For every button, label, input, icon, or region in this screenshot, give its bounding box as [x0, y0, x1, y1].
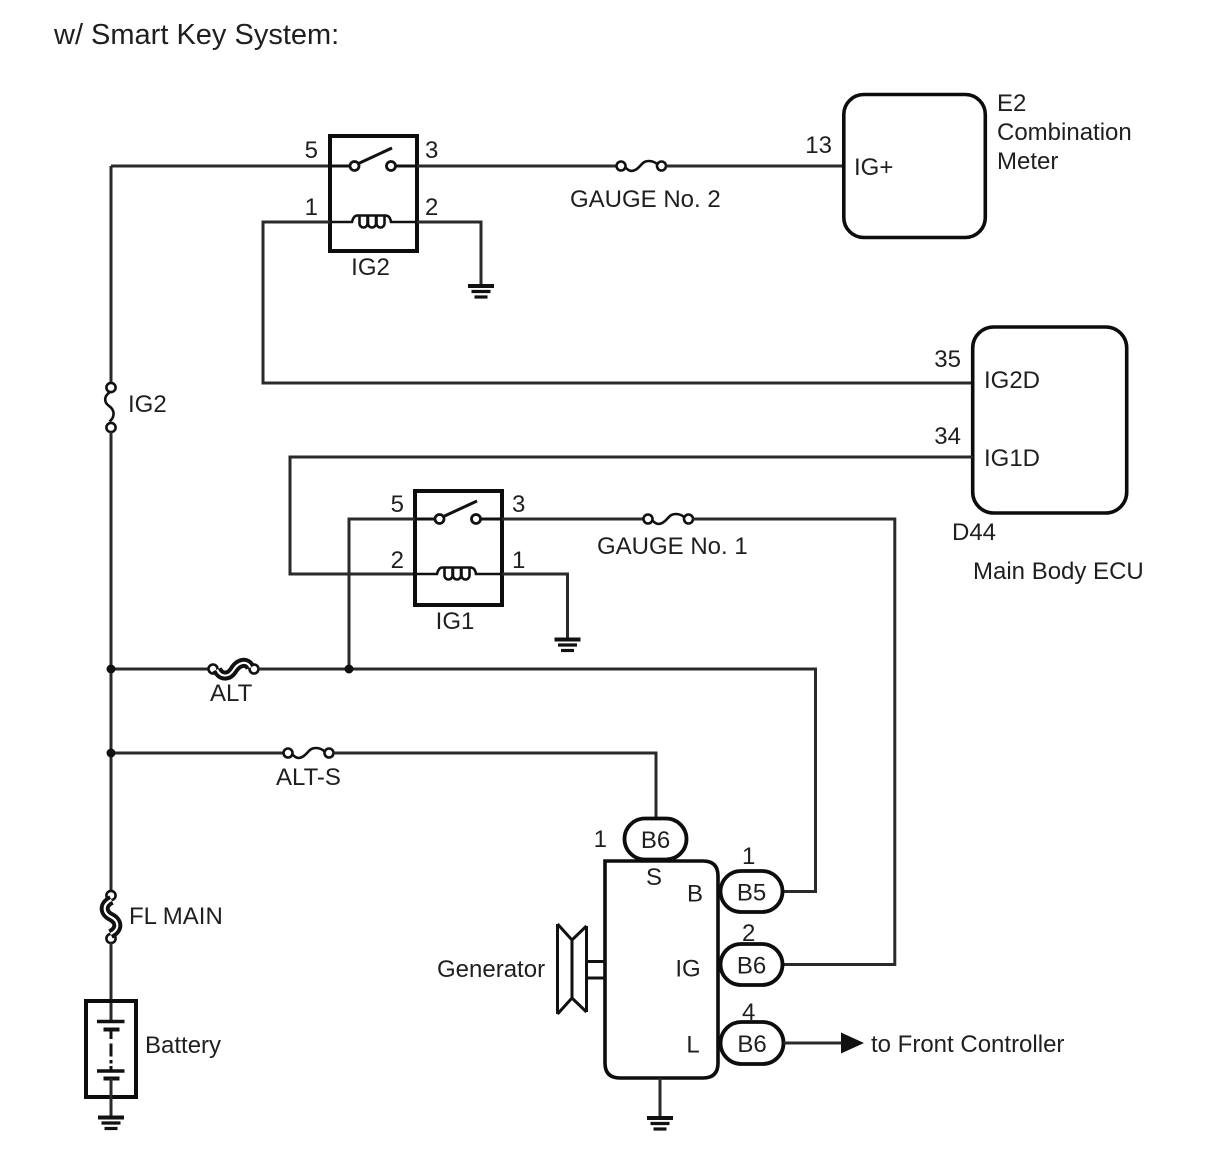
- wire ECU IG1D to relay IG1 pin2: [290, 457, 973, 574]
- svg-text:4: 4: [742, 999, 755, 1026]
- wire left vertical bus middle segment: [110, 432, 113, 891]
- svg-text:B6: B6: [737, 1031, 766, 1058]
- relay IG1 pin labels: [391, 491, 526, 574]
- svg-text:35: 35: [934, 346, 961, 373]
- svg-text:FL MAIN: FL MAIN: [129, 903, 223, 930]
- relay IG2 box: [330, 136, 417, 251]
- connector IG+ combination meter box: [844, 95, 986, 238]
- svg-text:IG+: IG+: [854, 154, 893, 181]
- svg-text:5: 5: [391, 491, 404, 518]
- wire relay IG1 pin5 down to ALT node: [349, 519, 415, 669]
- svg-text:B: B: [687, 881, 703, 908]
- relay IG1 box: [415, 491, 502, 605]
- connector B6 terminal S: [625, 819, 687, 860]
- svg-text:2: 2: [425, 194, 438, 221]
- svg-text:B6: B6: [737, 953, 766, 980]
- svg-text:5: 5: [305, 137, 318, 164]
- wire relay IG2 pin2 to ground: [417, 222, 481, 284]
- relay IG1 switch: [415, 501, 502, 524]
- junction node ALT left: [107, 665, 116, 674]
- relay IG2 switch: [330, 148, 417, 171]
- connector B6 terminal L: [721, 1022, 784, 1064]
- svg-text:GAUGE No. 1: GAUGE No. 1: [597, 533, 748, 560]
- arrowhead to Front Controller: [841, 1033, 864, 1054]
- wire relay IG1 pin1 to ground: [502, 574, 568, 638]
- fusible link FL MAIN: [105, 891, 118, 943]
- svg-text:E2: E2: [997, 90, 1026, 117]
- svg-text:L: L: [686, 1032, 699, 1059]
- svg-text:13: 13: [805, 132, 832, 159]
- connector B6 terminal IG: [721, 944, 783, 985]
- junction node ALT-S left: [107, 749, 116, 758]
- junction node ALT / IG1 pin5: [345, 665, 354, 674]
- battery box: [86, 1001, 136, 1097]
- svg-text:Generator: Generator: [437, 956, 545, 983]
- svg-text:B5: B5: [737, 880, 766, 907]
- wire ALT to generator B5: [259, 669, 816, 892]
- fuse IG2 (left bus): [105, 383, 115, 432]
- fuse GAUGE No. 2: [617, 161, 667, 171]
- wire into battery: [110, 943, 113, 1022]
- svg-text:w/ Smart Key System:: w/ Smart Key System:: [53, 19, 339, 51]
- wire relay IG1 pin3 to fuse GAUGE No.1: [502, 518, 644, 521]
- fusible link ALT: [209, 663, 259, 676]
- svg-text:IG: IG: [675, 956, 700, 983]
- svg-text:Battery: Battery: [145, 1032, 221, 1059]
- relay IG2 pin labels: [305, 137, 439, 221]
- wire fuse GAUGE No.1 to generator IG: [693, 519, 895, 965]
- connector B5 terminal B: [721, 871, 783, 912]
- ECU box D44: [973, 327, 1127, 513]
- svg-text:IG1D: IG1D: [984, 445, 1040, 472]
- wire relay IG2 pin1 to ECU IG2D: [263, 222, 973, 383]
- svg-text:ALT-S: ALT-S: [276, 764, 341, 791]
- ground (IG2 relay coil): [468, 286, 494, 297]
- generator pulley: [558, 924, 607, 1014]
- ground (IG1 relay coil): [555, 640, 581, 651]
- wire ALT row: [111, 668, 209, 671]
- wire top-left horizontal to relay IG2 pin 5: [111, 165, 330, 168]
- svg-text:IG2: IG2: [128, 391, 167, 418]
- svg-text:1: 1: [742, 843, 755, 870]
- battery plates: [97, 1022, 125, 1079]
- wire ALT-S to generator S: [334, 753, 657, 818]
- battery ground stub: [110, 1079, 113, 1116]
- ground (generator): [647, 1118, 673, 1129]
- wire fuse to combination meter: [666, 165, 844, 168]
- svg-text:1: 1: [594, 826, 607, 853]
- svg-text:34: 34: [934, 423, 961, 450]
- svg-text:to Front Controller: to Front Controller: [871, 1031, 1064, 1058]
- fuse GAUGE No. 1: [644, 514, 694, 524]
- svg-text:GAUGE No. 2: GAUGE No. 2: [570, 186, 721, 213]
- svg-text:B6: B6: [641, 827, 670, 854]
- relay IG2 coil: [330, 216, 417, 228]
- svg-text:IG2: IG2: [351, 254, 390, 281]
- relay IG1 coil: [415, 568, 502, 580]
- svg-text:ALT: ALT: [210, 680, 253, 707]
- svg-text:Meter: Meter: [997, 148, 1058, 175]
- svg-text:2: 2: [742, 920, 755, 947]
- label E2 Combination Meter: [997, 90, 1132, 175]
- svg-text:S: S: [646, 864, 662, 891]
- wire left vertical bus upper segment: [110, 166, 113, 383]
- svg-text:1: 1: [305, 194, 318, 221]
- svg-text:D44: D44: [952, 519, 996, 546]
- generator box: [605, 861, 718, 1078]
- svg-text:1: 1: [512, 547, 525, 574]
- wire ALT-S row: [111, 752, 284, 755]
- svg-text:3: 3: [425, 137, 438, 164]
- wire L to front controller arrow: [784, 1042, 843, 1045]
- fuse ALT-S: [284, 748, 334, 758]
- svg-text:Combination: Combination: [997, 119, 1132, 146]
- svg-text:2: 2: [391, 547, 404, 574]
- svg-text:Main Body ECU: Main Body ECU: [973, 558, 1144, 585]
- svg-text:3: 3: [512, 491, 525, 518]
- generator ground stub: [659, 1078, 662, 1116]
- wire relay IG2 pin3 to fuse GAUGE No.2: [417, 165, 617, 168]
- ground (battery): [98, 1118, 124, 1129]
- svg-text:IG2D: IG2D: [984, 367, 1040, 394]
- svg-text:IG1: IG1: [436, 608, 475, 635]
